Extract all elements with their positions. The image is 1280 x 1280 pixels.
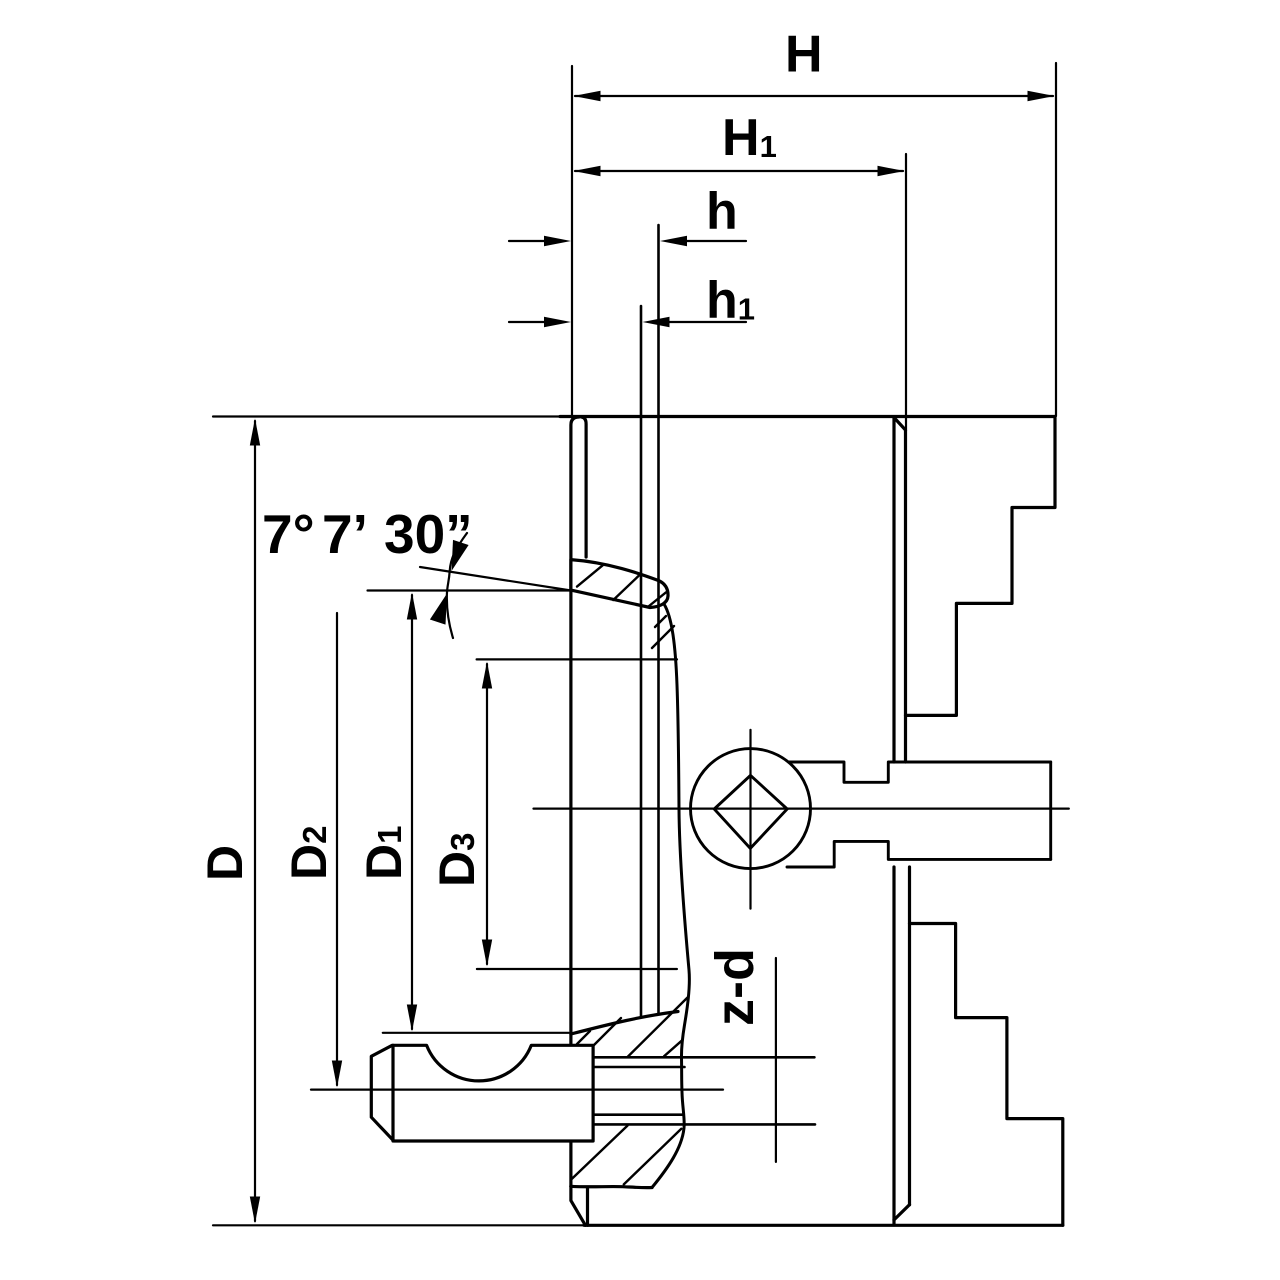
dimension line H [575,95,1053,97]
svg-text:7°: 7° [262,503,315,565]
jaw guide face upper [904,430,907,762]
svg-text:H: H [785,26,823,84]
pinion boss bottom edge [787,841,1051,867]
extension line h1 (vertical reference) [640,306,643,1016]
dimension line h (left stub with arrow) [509,240,545,242]
stud / bolt hole axis line [311,1088,723,1090]
bottom lip inner edge [586,1188,589,1226]
D3 level line top [477,658,677,660]
stud body (white fill) [371,1045,593,1141]
front taper ring section (bottom half) [571,1012,678,1035]
dimension line D2 [336,613,338,1085]
dimension line h1 (left stub with arrow) [509,321,545,323]
body top edge [560,415,1055,418]
main horizontal centerline [534,807,1069,809]
body top edge (D level extension thin part) [213,415,560,417]
dimension line h1 (right tail with arrow) [668,321,746,323]
hatch sliver right of ring lip [652,626,674,648]
stud chamfer edge [391,1045,394,1141]
D3 level line bottom [477,968,677,970]
lower hatched wedge [571,1126,627,1180]
dimension H1 extension line [905,154,907,429]
bottom jaw stepped profile [910,924,1063,1226]
section bottom wavy boundary [571,1186,652,1187]
threaded hole inner line bottom [593,1113,682,1116]
angle arrow upper [452,540,469,571]
angle arrow lower [430,594,447,625]
jaw guide face lower [908,867,911,1205]
dimension line D1 [411,595,413,1029]
svg-text:D: D [197,845,253,881]
threaded hole outer line top [593,1056,814,1059]
pinion boss top edge [788,762,1051,782]
threaded hole inner line top [593,1066,684,1069]
pinion vertical centerline [749,730,751,909]
dimension line D [254,421,256,1221]
front taper ring section (top half) [571,560,668,608]
dimension line h (right tail with arrow) [686,240,746,242]
extension line h (vertical reference) [657,225,660,1013]
D1 level line bottom [383,1032,569,1034]
taper angle slant line 7 deg 7 min 30 sec [420,567,571,591]
section break S-curve [652,604,689,1188]
pinion square socket (diamond) [714,775,787,848]
front recess inner line with rounded top [582,417,587,557]
jaw guide chamfer top [894,418,906,431]
pinion boss right edge [1049,762,1052,859]
svg-text:h: h [706,183,738,241]
svg-text:z-d: z-d [705,948,765,1026]
bottom front lip: step and chamfer [571,1186,586,1225]
D1 level line top [368,589,572,591]
top jaw stepped profile [906,417,1056,716]
body front face with rounded top corner [571,417,579,1186]
hatch ring top [577,564,604,586]
body rear face lower [892,867,895,1225]
body bottom edge (D extension thin part) [213,1224,584,1226]
pinion circle [691,749,811,869]
dimension line D3 [486,664,488,964]
dimension H extension line left (front face extended) [571,66,573,416]
body rear face upper [892,418,895,763]
z-d bolt circle vertical centerline [775,958,777,1162]
body bottom edge [584,1224,1063,1227]
jaw guide chamfer bottom [894,1205,910,1220]
svg-text:7’: 7’ [322,503,368,565]
hatch ring bottom [577,1031,590,1044]
angle dimension arc [447,533,467,638]
dimension line H1 [575,170,903,172]
dimension H extension line right [1055,63,1057,416]
threaded hole outer line bottom [593,1123,815,1126]
